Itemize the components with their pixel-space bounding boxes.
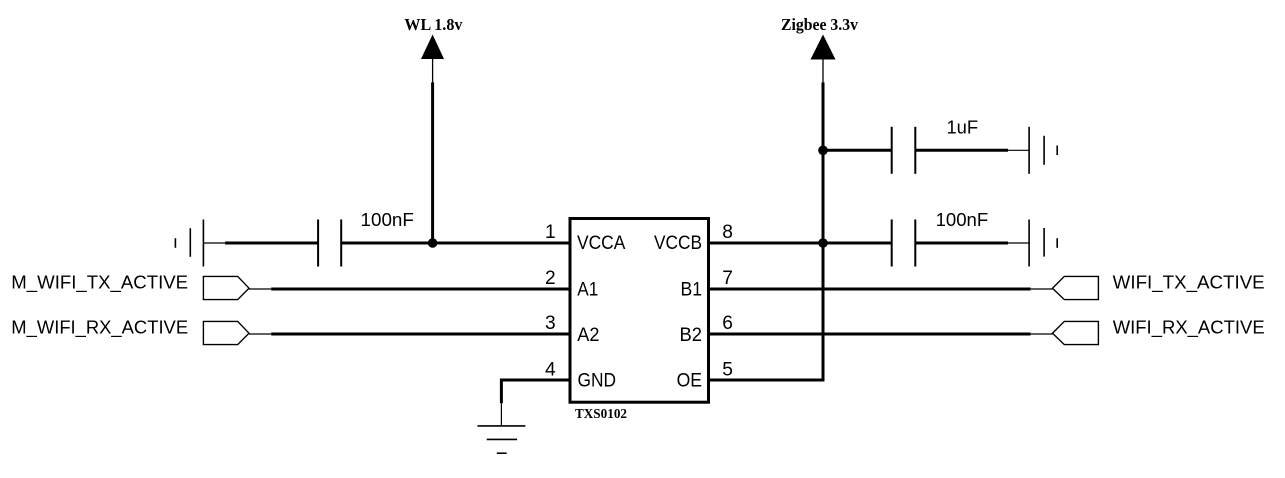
svg-text:100nF: 100nF <box>936 209 989 230</box>
wire pin 7 B1 to port <box>708 288 1053 291</box>
svg-text:B2: B2 <box>680 325 703 346</box>
wire Zigbee 3.3v net vertical <box>822 82 825 243</box>
ground (rotated, right of C2) <box>1029 127 1057 174</box>
ground symbol <box>478 426 526 453</box>
svg-text:WIFI_RX_ACTIVE: WIFI_RX_ACTIVE <box>1113 317 1265 339</box>
svg-text:B1: B1 <box>681 279 703 300</box>
junction at (823,150.3) <box>818 146 828 156</box>
power symbol Zigbee 3.3v <box>781 15 859 82</box>
wire C2 to ground <box>915 149 1029 152</box>
ground (rotated, right of C3) <box>1029 220 1057 267</box>
IC U1 TXS0102 body <box>570 219 709 403</box>
wire pin 6 B2 to port <box>708 333 1053 336</box>
power symbol WL 1.8v <box>404 15 463 82</box>
svg-text:TXS0102: TXS0102 <box>575 407 627 422</box>
wire junction to C3 100nF <box>823 242 892 245</box>
port symbol M_WIFI_RX_ACTIVE <box>203 321 249 344</box>
svg-text:7: 7 <box>722 268 733 289</box>
svg-text:M_WIFI_RX_ACTIVE: M_WIFI_RX_ACTIVE <box>11 317 188 339</box>
port symbol WIFI_RX_ACTIVE <box>1053 321 1099 344</box>
svg-text:3: 3 <box>545 313 556 334</box>
svg-text:5: 5 <box>722 359 733 380</box>
svg-text:6: 6 <box>722 313 733 334</box>
svg-text:2: 2 <box>545 268 556 289</box>
svg-text:A1: A1 <box>577 279 598 300</box>
port symbol M_WIFI_TX_ACTIVE <box>203 276 249 299</box>
svg-text:GND: GND <box>578 370 617 391</box>
svg-text:VCCA: VCCA <box>577 233 625 254</box>
wire port to pin 3 A2 <box>249 333 570 335</box>
port symbol WIFI_TX_ACTIVE <box>1053 276 1099 299</box>
svg-text:4: 4 <box>545 359 556 380</box>
wire pin 5 OE to Zigbee net <box>708 243 823 380</box>
svg-text:OE: OE <box>677 370 702 391</box>
capacitor C3 100nF <box>892 220 916 267</box>
wire C3 to ground <box>915 242 1029 245</box>
capacitor C1 100nF <box>318 220 341 267</box>
ground (rotated, left of C1) <box>175 220 203 267</box>
wire junction to C2 1uF <box>823 149 892 152</box>
svg-text:M_WIFI_TX_ACTIVE: M_WIFI_TX_ACTIVE <box>11 272 188 294</box>
svg-text:1uF: 1uF <box>946 117 978 138</box>
svg-text:8: 8 <box>722 222 733 243</box>
wire WL 1.8v net vertical <box>431 82 434 243</box>
svg-text:A2: A2 <box>577 325 599 346</box>
junction at (823,243) <box>818 238 828 248</box>
svg-text:100nF: 100nF <box>361 209 414 230</box>
wire pin 8 VCCB to junction <box>708 242 823 245</box>
capacitor C2 1uF <box>892 127 916 174</box>
svg-text:WIFI_TX_ACTIVE: WIFI_TX_ACTIVE <box>1113 272 1265 294</box>
svg-text:WL 1.8v: WL 1.8v <box>404 15 463 34</box>
wire ground to C1 <box>203 242 318 244</box>
svg-text:VCCB: VCCB <box>654 233 702 254</box>
junction at (432.5,243) <box>428 238 438 248</box>
wire port to pin 2 A1 <box>249 288 570 290</box>
svg-text:Zigbee 3.3v: Zigbee 3.3v <box>781 15 859 34</box>
wire pin 4 GND to ground <box>501 380 570 426</box>
wire C1 to pin 1 VCCA <box>341 242 570 245</box>
svg-text:1: 1 <box>545 222 556 243</box>
